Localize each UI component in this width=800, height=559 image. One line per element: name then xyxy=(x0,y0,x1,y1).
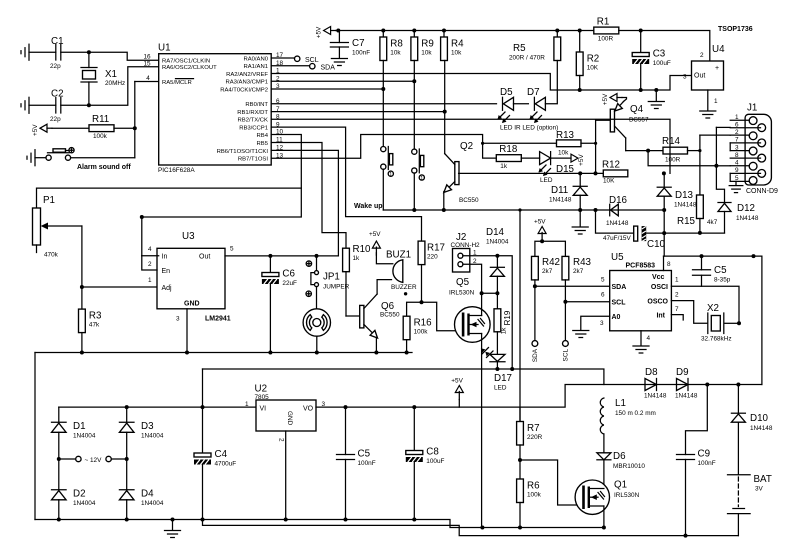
svg-text:LED: LED xyxy=(494,385,507,392)
svg-text:D15: D15 xyxy=(556,164,575,175)
wire gate to Q5 xyxy=(422,302,462,330)
wire J1 pin6 stub xyxy=(716,126,730,128)
svg-text:SDA: SDA xyxy=(321,65,336,72)
LED arrows D5 xyxy=(498,112,510,123)
svg-text:100k: 100k xyxy=(527,492,542,499)
wire +5V to buzzer xyxy=(376,253,392,264)
diode D14 xyxy=(490,267,504,276)
resistor R19 xyxy=(494,309,512,335)
svg-text:150 m 0.2 mm: 150 m 0.2 mm xyxy=(615,410,656,417)
svg-text:D5: D5 xyxy=(500,87,513,98)
R42 labels xyxy=(542,257,560,275)
wire U5 pin8 Vcc xyxy=(663,256,665,270)
wire Q5 drain xyxy=(481,293,483,315)
wire D10 top xyxy=(737,385,739,413)
svg-text:1N4148: 1N4148 xyxy=(644,393,667,400)
wire pin17 to SCL xyxy=(271,57,294,59)
svg-text:4: 4 xyxy=(647,335,651,342)
junction R42 R43 top xyxy=(540,239,544,243)
wire RB7 to R18 feed xyxy=(271,135,496,159)
wire RB4 to P1 xyxy=(142,135,301,256)
wire U5 Int stub xyxy=(671,315,683,320)
resistor R16 xyxy=(403,316,432,340)
wire switch2 bottom xyxy=(413,173,415,210)
wire RB1 pin7 line xyxy=(271,111,445,113)
svg-text:BUZZER: BUZZER xyxy=(391,284,417,291)
junction R9 RA3 xyxy=(412,79,416,83)
wire D2 bottom xyxy=(58,500,60,520)
wire D14 top xyxy=(496,256,498,267)
junction C7 top xyxy=(336,29,340,33)
capacitor C10 xyxy=(603,226,666,250)
svg-text:32.768kHz: 32.768kHz xyxy=(701,336,732,343)
wire C9 bottom xyxy=(685,460,687,536)
wire Q6 emitter down xyxy=(375,338,377,353)
wire C5b top xyxy=(345,407,347,454)
svg-text:VO: VO xyxy=(303,406,314,413)
jumper JP1 xyxy=(306,256,350,297)
wire SCL line xyxy=(565,301,609,303)
svg-text:10K: 10K xyxy=(587,65,599,72)
junction R8 top xyxy=(381,29,385,33)
wire R15 bottom xyxy=(699,219,701,233)
svg-text:220R: 220R xyxy=(527,434,543,441)
bridge plus rail xyxy=(59,406,256,408)
svg-text:D3: D3 xyxy=(141,421,154,432)
battery BAT 3V xyxy=(728,474,772,514)
svg-text:R42: R42 xyxy=(542,257,560,268)
resistor R7 xyxy=(517,422,543,446)
terminal SDA bottom xyxy=(532,341,539,363)
svg-text:8: 8 xyxy=(667,261,671,268)
svg-text:+5V: +5V xyxy=(316,26,323,38)
junction U3 gnd rail xyxy=(185,351,189,355)
wire D3 top xyxy=(126,407,128,421)
capacitor C6 xyxy=(262,269,297,288)
svg-text:100k: 100k xyxy=(93,133,108,140)
junction D4 gnd rail xyxy=(125,518,129,522)
+5V arrow buzzer xyxy=(372,241,380,255)
svg-text:10k: 10k xyxy=(558,150,569,157)
junction C8 gnd rail xyxy=(412,518,416,522)
wire U3 Out line xyxy=(225,255,338,257)
junction Q6 emitter rail xyxy=(374,351,378,355)
svg-text:4: 4 xyxy=(146,75,150,82)
secondary ground link xyxy=(203,520,739,536)
wire alarm switch to MCLR xyxy=(71,157,135,159)
wire R19 to D17 xyxy=(496,332,498,355)
capacitor C5 trimmer xyxy=(693,256,731,286)
transistor Q6 BC550 xyxy=(360,294,400,338)
wire D15 to +5V xyxy=(552,157,571,159)
svg-text:BC557: BC557 xyxy=(629,117,649,124)
svg-text:PCF8583: PCF8583 xyxy=(626,263,656,270)
resistor R2 xyxy=(576,52,599,76)
capacitor C9 xyxy=(677,449,716,468)
junction JP1 top xyxy=(315,254,319,258)
svg-text:7: 7 xyxy=(735,137,739,144)
wire J2 pin2 xyxy=(463,264,482,293)
junction R15 bottom rail xyxy=(698,231,702,235)
junction Q4 base R12 line xyxy=(594,171,598,175)
svg-text:1: 1 xyxy=(148,277,152,284)
wire +5V to R42 R43 xyxy=(541,240,543,243)
wire J1 pin2 feed xyxy=(699,135,701,151)
switch wake up 1 xyxy=(381,147,394,179)
svg-text:RB5: RB5 xyxy=(257,141,269,147)
wire D6 to Q1 drain xyxy=(603,461,605,489)
svg-text:TSOP1736: TSOP1736 xyxy=(718,26,753,33)
LED arrows D7 xyxy=(530,112,542,123)
svg-text:+5V: +5V xyxy=(578,154,585,166)
junction D12 J1 pin4 xyxy=(714,164,718,168)
svg-text:100uF: 100uF xyxy=(653,60,671,67)
wire MCLR vertical xyxy=(134,82,136,158)
wire D12 top xyxy=(716,166,724,202)
svg-text:D14: D14 xyxy=(486,227,505,238)
svg-text:R16: R16 xyxy=(414,318,433,329)
mosfet Q1 IRL530N xyxy=(575,480,640,515)
wire C5b bottom xyxy=(345,460,347,520)
svg-text:R3: R3 xyxy=(89,311,102,322)
D6 labels xyxy=(613,451,645,470)
svg-text:R15: R15 xyxy=(677,216,696,227)
svg-text:1: 1 xyxy=(675,277,679,284)
svg-text:3V: 3V xyxy=(755,486,764,493)
wire R19 top xyxy=(496,293,498,309)
svg-text:D7: D7 xyxy=(527,87,540,98)
wire R42 R43 tops xyxy=(535,241,566,256)
svg-text:Alarm sound off: Alarm sound off xyxy=(77,164,131,171)
junction D3 D4 12V xyxy=(125,457,129,461)
capacitor C8 xyxy=(406,447,445,466)
wire R8 top xyxy=(382,31,384,38)
wire P1 line xyxy=(37,188,302,208)
+5V arrow at VO line xyxy=(451,378,463,400)
wire to R16 xyxy=(407,302,422,316)
R43 labels xyxy=(573,257,592,275)
wire C2 to OSC2 node xyxy=(61,67,159,106)
switch wake up 2 xyxy=(412,149,425,182)
wire Q5 source xyxy=(481,334,483,528)
ground below U4 xyxy=(700,111,716,118)
svg-text:100nF: 100nF xyxy=(358,460,376,467)
terminal SCL xyxy=(295,56,319,64)
svg-text:LM2941: LM2941 xyxy=(205,316,231,323)
svg-text:D12: D12 xyxy=(737,203,755,214)
wire C8 bottom xyxy=(413,462,415,520)
junction Adj node xyxy=(80,285,84,289)
svg-text:R11: R11 xyxy=(92,114,109,125)
D10 labels xyxy=(750,413,773,432)
svg-text:R14: R14 xyxy=(662,136,681,147)
svg-text:R13: R13 xyxy=(556,130,575,141)
wire C4 bottom xyxy=(202,465,204,520)
svg-text:~ 12V: ~ 12V xyxy=(85,457,103,464)
svg-text:D2: D2 xyxy=(73,489,86,500)
svg-text:100R: 100R xyxy=(665,157,681,164)
wire Q6 base xyxy=(346,315,360,317)
wire C6 bottom xyxy=(269,284,271,353)
resistor R6 xyxy=(517,479,542,503)
svg-text:JP1: JP1 xyxy=(323,272,340,283)
resistor R5 xyxy=(509,37,561,62)
wire RB2 TX line xyxy=(271,119,670,173)
wire J1 pin2 horiz xyxy=(700,134,730,136)
wire Q6 collector up xyxy=(377,280,391,294)
junction X1 bottom xyxy=(87,103,91,107)
svg-text:C10: C10 xyxy=(647,239,666,250)
LED D15 xyxy=(540,152,551,165)
svg-text:OSCO: OSCO xyxy=(647,299,668,306)
wire VI drop xyxy=(202,369,204,453)
svg-text:1N4004: 1N4004 xyxy=(141,433,164,440)
ground at J1 pin5 xyxy=(729,186,743,193)
svg-text:Wake up: Wake up xyxy=(354,203,383,210)
capacitor C3 xyxy=(632,49,671,68)
ground below A0 xyxy=(573,331,589,338)
wire R5 top xyxy=(556,31,558,38)
junction SDA node xyxy=(533,284,537,288)
svg-text:D16: D16 xyxy=(609,195,628,206)
svg-text:Q6: Q6 xyxy=(381,301,395,312)
svg-text:2: 2 xyxy=(148,261,152,268)
svg-text:1k: 1k xyxy=(501,327,508,335)
svg-text:1N4004: 1N4004 xyxy=(73,433,96,440)
svg-text:RB3/CCP1: RB3/CCP1 xyxy=(239,126,268,132)
ground for C1 xyxy=(21,44,29,60)
svg-text:R9: R9 xyxy=(421,39,434,50)
svg-text:9: 9 xyxy=(735,167,739,174)
resistor R18 xyxy=(496,144,521,170)
wire D14 bottom xyxy=(496,276,498,293)
svg-text:BC550: BC550 xyxy=(459,197,479,204)
diode D2 xyxy=(52,490,67,500)
junction Q5 drain node xyxy=(480,291,484,295)
junction U2 gnd rail xyxy=(284,518,288,522)
svg-text:5: 5 xyxy=(230,246,234,253)
LED D17 xyxy=(490,354,512,391)
svg-text:D9: D9 xyxy=(676,367,689,378)
resistor R11 xyxy=(89,114,114,140)
main ground rail xyxy=(35,520,604,528)
svg-text:4: 4 xyxy=(148,246,152,253)
svg-text:RB1/RX/DT: RB1/RX/DT xyxy=(237,110,268,116)
D8 labels xyxy=(644,367,667,400)
wire D2 top xyxy=(58,459,60,489)
LED D5 xyxy=(503,97,514,110)
R15 labels xyxy=(677,216,718,227)
junction D17 line xyxy=(495,367,499,371)
inductor L1 xyxy=(600,398,656,434)
junction C6 top xyxy=(268,254,272,258)
wire R15 top xyxy=(699,151,701,195)
junction D10 branch xyxy=(736,383,740,387)
svg-text:A0: A0 xyxy=(612,314,621,321)
svg-text:3: 3 xyxy=(735,144,739,151)
diode D3 xyxy=(119,422,134,432)
junction R4 top xyxy=(442,29,446,33)
svg-text:RB4: RB4 xyxy=(257,133,269,139)
terminal SDA xyxy=(310,63,336,71)
svg-text:22p: 22p xyxy=(50,63,61,70)
regulator U2 7805 xyxy=(245,384,326,443)
crystal X1 xyxy=(81,68,125,88)
D1 labels xyxy=(73,421,96,440)
svg-text:1N4148: 1N4148 xyxy=(674,202,697,209)
diode D1 xyxy=(52,422,67,432)
svg-text:1N4148: 1N4148 xyxy=(606,220,629,227)
wire Q4 base vertical xyxy=(595,120,597,173)
svg-text:U1: U1 xyxy=(158,43,171,54)
ground rail left xyxy=(35,352,412,354)
wire speaker to gnd rail xyxy=(316,336,318,352)
svg-text:3: 3 xyxy=(176,316,180,323)
junction R2 top xyxy=(578,29,582,33)
mosfet Q5 IRL530N xyxy=(449,277,490,342)
junction D1 D2 12V xyxy=(57,457,61,461)
wire U3 In xyxy=(142,255,159,257)
svg-text:4700uF: 4700uF xyxy=(215,461,237,468)
junction D13 vertical rail xyxy=(662,208,666,212)
junction D11 top xyxy=(578,171,582,175)
svg-text:Adj: Adj xyxy=(162,285,173,292)
junction R7 R6 xyxy=(518,458,522,462)
junction VI line xyxy=(201,405,205,409)
svg-text:RA4/T0CKI/CMP2: RA4/T0CKI/CMP2 xyxy=(220,87,268,93)
wire C10 right xyxy=(646,232,664,234)
junction C4 bottom rail xyxy=(201,518,205,522)
junction R14 right R15 xyxy=(698,149,701,152)
svg-text:Q1: Q1 xyxy=(614,480,627,491)
svg-text:SDA: SDA xyxy=(532,348,539,362)
junction R9 top xyxy=(412,29,416,33)
junction C5b top xyxy=(344,405,348,409)
wire L1 bottom xyxy=(603,434,605,452)
wire Q2 base line xyxy=(459,172,604,174)
wire C3 bottom xyxy=(640,64,642,90)
svg-text:1N4148: 1N4148 xyxy=(549,197,572,204)
svg-text:CONN-D9: CONN-D9 xyxy=(746,188,778,195)
capacitor C5 100nF xyxy=(337,449,376,468)
buzzer BUZ1 xyxy=(386,250,417,296)
wire U5 A0 xyxy=(581,316,610,329)
svg-text:C9: C9 xyxy=(698,449,711,460)
wire BAT bottom xyxy=(737,514,739,536)
svg-text:R12: R12 xyxy=(602,160,620,171)
svg-text:LED: LED xyxy=(540,177,553,184)
svg-text:VI: VI xyxy=(260,406,267,413)
svg-text:100R: 100R xyxy=(598,36,614,43)
wire U3 GND down xyxy=(186,309,188,353)
wire R14 left down xyxy=(648,151,716,166)
junction U3 In feed xyxy=(140,215,144,219)
wire D7 to R5 bottom xyxy=(545,61,557,104)
connector J2 CONN-H2 xyxy=(451,232,481,272)
wire C3 top xyxy=(640,31,642,53)
resistor R12 xyxy=(602,160,628,185)
wire 12V terminal right xyxy=(111,458,126,460)
svg-text:+5V: +5V xyxy=(534,219,546,226)
svg-text:BAT: BAT xyxy=(754,474,772,485)
C10 bottom rail xyxy=(664,232,724,234)
+5V arrow R42 R43 xyxy=(538,227,546,241)
wire SDA line xyxy=(535,285,610,287)
D14 labels xyxy=(486,227,509,246)
wire RB3 CCP1 to R17 xyxy=(271,127,421,241)
svg-text:RA5/MCLR: RA5/MCLR xyxy=(162,80,192,86)
wire D13 column xyxy=(663,196,665,256)
wire X1 bottom xyxy=(88,82,90,105)
svg-text:D1: D1 xyxy=(73,421,86,432)
wire J1 pin6 tie xyxy=(715,127,717,165)
svg-text:RA3/AN3/CMP1: RA3/AN3/CMP1 xyxy=(225,80,268,86)
+5V arrow Q4 emitter xyxy=(602,93,622,105)
svg-text:200R / 470R: 200R / 470R xyxy=(509,55,545,62)
svg-text:2k7: 2k7 xyxy=(573,268,584,275)
junction D3 rail xyxy=(125,405,129,409)
wire J1 pin7-pin3 tie xyxy=(729,143,731,151)
regulator U3 LM2941 xyxy=(148,231,234,323)
D11 labels xyxy=(549,185,572,204)
U1 right pin labels xyxy=(217,52,284,162)
svg-text:2: 2 xyxy=(675,292,679,299)
capacitor C7 xyxy=(330,31,370,58)
resistor R10 xyxy=(343,244,371,272)
wire Adj line xyxy=(82,286,159,288)
svg-text:10k: 10k xyxy=(451,50,462,57)
wire Q2 emitter down xyxy=(443,192,445,211)
capacitor C4 xyxy=(194,449,236,468)
wire X1 top xyxy=(88,52,90,67)
svg-text:2k7: 2k7 xyxy=(542,268,553,275)
wire R11 to MCLR node xyxy=(114,127,135,129)
svg-text:10k: 10k xyxy=(421,50,432,57)
wire Q4 emitter bend xyxy=(622,98,627,102)
transistor Q4 BC557 xyxy=(610,102,649,139)
svg-text:R7: R7 xyxy=(527,423,540,434)
junction speaker gnd rail xyxy=(315,351,319,355)
transistor Q2 BC550 xyxy=(444,141,479,204)
LED D7 xyxy=(534,97,545,110)
svg-text:1N4004: 1N4004 xyxy=(73,500,96,507)
junction R2 bottom xyxy=(578,88,582,92)
junction D2 gnd rail xyxy=(57,518,61,522)
wire RA3 pin2 line xyxy=(271,80,414,82)
ground rail left drop xyxy=(34,353,36,520)
diode D13 xyxy=(657,187,671,196)
wire D11 top xyxy=(579,173,581,186)
potentiometer P1 xyxy=(33,195,82,259)
svg-text:22p: 22p xyxy=(50,116,61,123)
ground below D11 xyxy=(572,227,588,234)
wire U5 pin4 gnd xyxy=(640,331,642,345)
junction R4 RB1 xyxy=(443,110,447,114)
wire D12 bottom xyxy=(724,212,726,233)
wire R4 top xyxy=(443,31,445,38)
resistor R1 xyxy=(594,17,619,43)
svg-text:Int: Int xyxy=(656,313,665,320)
wire C10 branch xyxy=(596,210,634,233)
svg-text:7: 7 xyxy=(675,306,679,313)
svg-text:P1: P1 xyxy=(43,195,55,206)
diode D4 xyxy=(119,490,134,500)
IR receiver U4 TSOP1736 xyxy=(692,26,753,90)
svg-text:R43: R43 xyxy=(573,257,592,268)
wire U5 OSCI xyxy=(671,286,739,323)
svg-text:MBR10010: MBR10010 xyxy=(613,463,645,470)
svg-text:3: 3 xyxy=(600,320,604,327)
